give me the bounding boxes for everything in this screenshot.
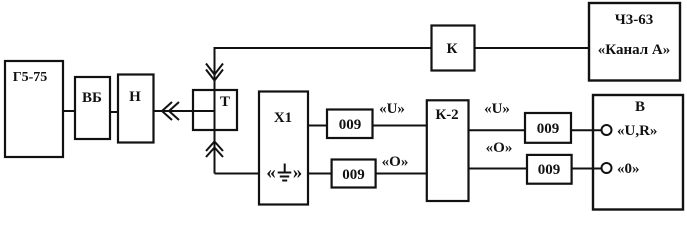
svg-text:«О»: «О» <box>486 140 513 156</box>
wire 009 #4 to terminal «0» <box>572 168 602 170</box>
terminal «U,R» <box>602 123 658 139</box>
wire Т branch to Н <box>154 110 215 112</box>
wire Х1 to 009 #2 <box>308 173 332 175</box>
svg-text:Х1: Х1 <box>274 110 292 126</box>
connector arrow pointing down (above Т) <box>206 64 223 81</box>
svg-text:ВБ: ВБ <box>82 90 102 106</box>
svg-text:«0»: «0» <box>617 161 640 177</box>
cable 009 #1 <box>327 110 373 139</box>
svg-text:«О»: «О» <box>382 154 409 170</box>
svg-text:Т: Т <box>220 94 230 110</box>
svg-text:К: К <box>447 41 458 57</box>
svg-text:Г5-75: Г5-75 <box>13 70 48 85</box>
connector arrow pointing left (on wire to Н) <box>162 102 179 120</box>
attenuator К <box>432 26 475 71</box>
svg-text:«U»: «U» <box>379 101 405 117</box>
svg-text:«Канал А»: «Канал А» <box>598 42 670 58</box>
wire 009 #2 to К-2 <box>376 173 427 175</box>
svg-text:009: 009 <box>537 121 560 137</box>
wire Г5-75 to ВБ <box>63 110 75 112</box>
block ВБ <box>75 77 110 139</box>
svg-text:К-2: К-2 <box>435 107 458 123</box>
block Н <box>118 75 154 143</box>
svg-text:«: « <box>266 162 276 183</box>
svg-text:Н: Н <box>129 89 141 105</box>
wire 009 #3 to terminal «U,R» <box>571 129 602 131</box>
block Х1 with ground <box>259 92 308 205</box>
svg-text:009: 009 <box>339 117 362 133</box>
wire ВБ to Н <box>110 111 118 113</box>
wire К-2 to 009 #4 <box>469 168 528 170</box>
cable 009 #3 <box>525 113 571 143</box>
bottom wire Т to Х1 <box>215 173 260 175</box>
wire Х1 to 009 #1 <box>308 125 327 127</box>
tee block Т <box>193 90 237 130</box>
cable 009 #2 <box>332 160 376 188</box>
wire К-2 to 009 #3 <box>469 129 526 131</box>
switch block К-2 <box>427 100 469 201</box>
terminal «0» <box>602 161 640 177</box>
cable 009 #4 <box>527 155 572 184</box>
frequency counter Ч3-63 «Канал А» <box>589 3 680 81</box>
vertical wire through Т <box>214 48 216 174</box>
wire 009 #1 to К-2 <box>373 125 427 127</box>
connector arrow pointing up (below Т) <box>206 142 223 158</box>
svg-text:«U»: «U» <box>484 101 510 117</box>
voltmeter В <box>593 95 683 210</box>
svg-text:«U,R»: «U,R» <box>617 123 657 139</box>
svg-text:009: 009 <box>538 162 561 178</box>
svg-text:Ч3-63: Ч3-63 <box>615 12 654 28</box>
generator Г5-75 <box>5 61 63 157</box>
ground symbol in quotes inside Х1 <box>266 162 302 183</box>
wire К to Ч3-63 <box>475 47 590 49</box>
svg-text:009: 009 <box>342 167 365 183</box>
svg-text:»: » <box>293 162 303 183</box>
svg-text:В: В <box>635 99 645 115</box>
top wire Т to К <box>214 47 432 49</box>
